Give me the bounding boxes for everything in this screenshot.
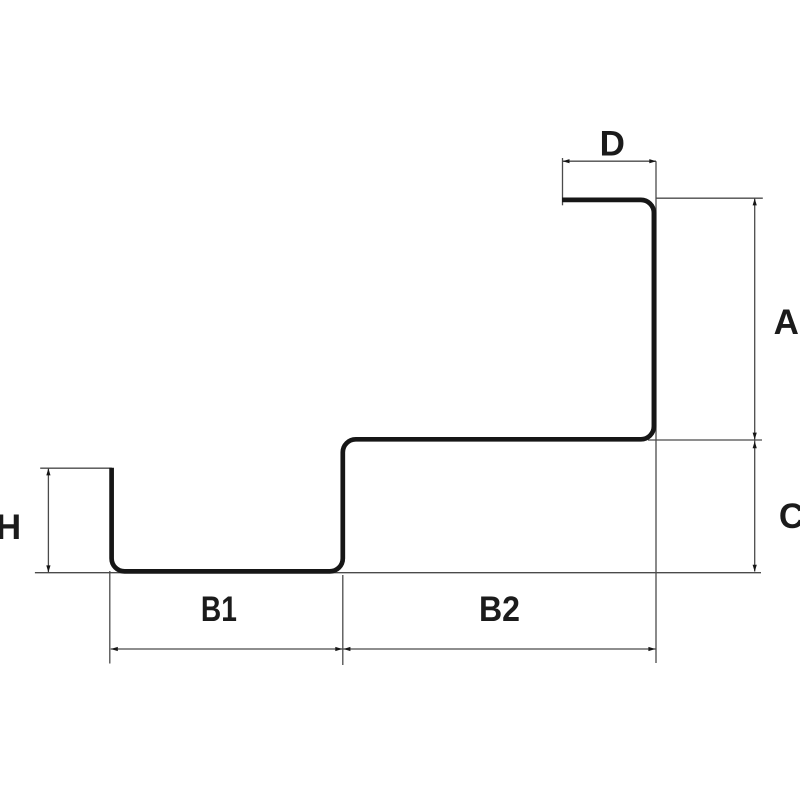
svg-text:B2: B2 — [479, 590, 520, 629]
svg-text:H: H — [0, 508, 21, 547]
svg-text:A: A — [774, 303, 799, 342]
svg-text:C: C — [779, 497, 800, 536]
svg-text:D: D — [600, 125, 625, 164]
svg-text:B1: B1 — [201, 590, 237, 629]
